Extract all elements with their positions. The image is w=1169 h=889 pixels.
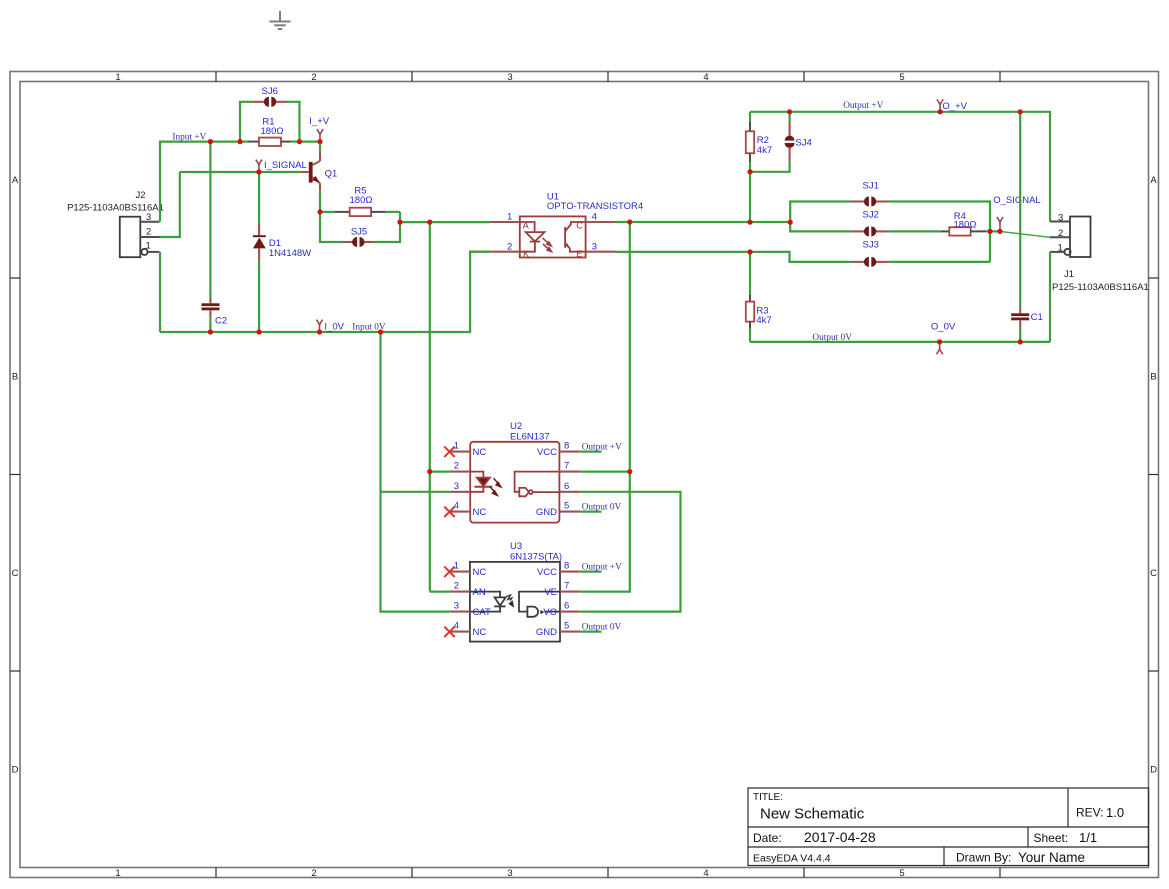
svg-text:I_SIGNAL: I_SIGNAL	[264, 160, 307, 171]
svg-text:2: 2	[1058, 228, 1063, 239]
wire U3 pin5 Output 0V stub	[580, 630, 601, 632]
svg-text:8: 8	[564, 441, 569, 452]
junction R5/SJ5 right node	[397, 220, 402, 225]
svg-text:3: 3	[454, 601, 459, 612]
svg-text:O_+V: O_+V	[942, 101, 967, 112]
svg-text:4: 4	[592, 212, 597, 223]
svg-text:6: 6	[564, 601, 569, 612]
netflag O_+V	[937, 99, 943, 111]
svg-text:SJ2: SJ2	[863, 209, 879, 220]
netflag I_+V	[317, 129, 323, 141]
junction Input+V at I_+V	[317, 139, 322, 144]
wire R2 bottom joint	[750, 162, 790, 172]
connector J2	[120, 217, 160, 258]
netflag I_SIGNAL	[256, 160, 262, 172]
svg-text:NC: NC	[473, 447, 487, 458]
netflag I_0V	[316, 320, 322, 332]
junction I_SIGNAL at D1	[256, 169, 261, 174]
svg-text:4: 4	[454, 501, 459, 512]
capacitor C1	[1011, 112, 1029, 342]
svg-text:5: 5	[564, 501, 569, 512]
svg-text:2: 2	[311, 868, 316, 879]
svg-text:2: 2	[454, 581, 459, 592]
junction top rail C1	[1018, 109, 1023, 114]
svg-text:3: 3	[507, 868, 512, 879]
svg-text:2: 2	[507, 241, 512, 252]
wire J2 pin1 down to 0V rail	[159, 252, 161, 332]
svg-text:Output 0V: Output 0V	[582, 503, 622, 513]
wire U2 pin8 Output +V stub	[580, 451, 601, 453]
junction Input+V at R1 left	[237, 139, 242, 144]
capacitor C2	[202, 142, 220, 332]
U3 internal LED	[470, 592, 506, 612]
svg-text:4: 4	[703, 72, 708, 83]
svg-text:1: 1	[1058, 243, 1063, 254]
wire U2 pin6 to U3 pin6	[580, 492, 680, 612]
wire SJ2 row to R4	[889, 230, 940, 232]
svg-text:2: 2	[146, 227, 151, 238]
svg-text:A: A	[1150, 175, 1157, 186]
resistor R5	[320, 208, 400, 216]
solder jumper SJ2	[851, 226, 890, 236]
svg-text:REV:: REV:	[1076, 806, 1104, 820]
svg-text:Sheet:: Sheet:	[1034, 831, 1069, 845]
frame column numbers top	[115, 72, 904, 83]
wire I_SIGNAL row	[180, 171, 301, 173]
wire vertical x630 to U2 pin7 and U3 pin7	[580, 222, 630, 592]
wire U2 pin2 stub	[430, 471, 450, 473]
svg-text:J2: J2	[135, 190, 145, 201]
svg-text:1.0: 1.0	[1106, 805, 1124, 820]
frame column ticks bottom	[216, 868, 1000, 878]
svg-text:A: A	[12, 175, 19, 186]
U3 internal output gate	[519, 592, 560, 617]
junction U1 pin4 row at R2	[747, 220, 752, 225]
U2 no-connect X pin1	[444, 447, 454, 457]
junction 0V rail at C1	[1018, 339, 1023, 344]
svg-text:5: 5	[564, 621, 569, 632]
wire J2 pin3 to Input +V rail	[160, 142, 240, 222]
frame row letters left	[12, 175, 19, 776]
svg-text:O_0V: O_0V	[931, 321, 956, 332]
svg-text:C: C	[12, 568, 19, 579]
wire 0V branch down to U3 pin3	[381, 332, 451, 612]
svg-text:B: B	[1150, 372, 1156, 383]
junction U2 pin7	[627, 469, 632, 474]
svg-text:8: 8	[564, 561, 569, 572]
svg-text:TITLE:: TITLE:	[753, 792, 783, 803]
svg-text:B: B	[12, 372, 18, 383]
resistor R1	[240, 138, 300, 146]
frame row ticks left	[10, 278, 20, 671]
junction Input+V at R1 right	[297, 139, 302, 144]
svg-text:OPTO-TRANSISTOR4: OPTO-TRANSISTOR4	[547, 201, 643, 212]
resistor R2	[746, 112, 754, 172]
svg-text:1: 1	[507, 212, 512, 223]
svg-text:3: 3	[454, 481, 459, 492]
svg-text:SJ6: SJ6	[262, 86, 278, 97]
connector J1	[1050, 217, 1091, 258]
U2 internal LED	[470, 472, 492, 492]
svg-text:VO: VO	[543, 607, 557, 618]
svg-text:4k7: 4k7	[757, 145, 772, 156]
wire SJ6 loop left	[240, 102, 253, 142]
wire SJ6 loop right	[287, 102, 300, 142]
svg-text:I_0V: I_0V	[324, 321, 344, 332]
svg-text:C2: C2	[215, 316, 227, 327]
svg-text:Date:: Date:	[753, 831, 782, 845]
wire to U3 pin2	[430, 590, 450, 592]
svg-text:4: 4	[454, 621, 459, 632]
U3 no-connect X pin4	[444, 627, 454, 637]
svg-text:1N4148W: 1N4148W	[269, 248, 311, 259]
svg-text:AN: AN	[473, 587, 486, 598]
svg-text:NC: NC	[473, 627, 487, 638]
svg-text:SJ5: SJ5	[351, 226, 367, 237]
svg-text:7: 7	[564, 581, 569, 592]
wire U2 pin7 to vertical	[580, 471, 630, 473]
junction 0V at U3 branch	[378, 329, 383, 334]
svg-text:Output +V: Output +V	[582, 562, 622, 572]
svg-text:A: A	[523, 220, 529, 230]
wire J2 pin2 to I_SIGNAL	[160, 172, 180, 237]
svg-text:7: 7	[564, 461, 569, 472]
svg-text:Output 0V: Output 0V	[582, 623, 622, 633]
svg-text:New Schematic: New Schematic	[760, 806, 865, 823]
wire vertical to U2 pin2	[429, 222, 431, 591]
svg-text:VE: VE	[544, 587, 557, 598]
solder jumper SJ5	[343, 237, 374, 247]
svg-text:GND: GND	[536, 507, 557, 518]
wire U2 pin3 branch	[381, 491, 451, 493]
junction top rail SJ4	[787, 109, 792, 114]
svg-text:C: C	[576, 220, 583, 230]
wire input 0V rail	[160, 252, 490, 332]
netflag O_SIGNAL	[997, 217, 1003, 231]
wire SJ3 row right	[889, 261, 990, 263]
svg-text:180Ω: 180Ω	[954, 219, 977, 230]
svg-text:VCC: VCC	[537, 447, 557, 458]
junction top rail O_+V	[938, 109, 943, 114]
junction R4 right	[987, 229, 992, 234]
wire U2 pin5 Output 0V stub	[580, 511, 601, 513]
junction 0V rail at O_0V	[937, 339, 942, 344]
svg-text:Your Name: Your Name	[1018, 850, 1085, 865]
svg-text:P125-1103A0BS116A1: P125-1103A0BS116A1	[67, 203, 164, 214]
ground	[270, 11, 291, 29]
title block text	[753, 792, 1124, 865]
svg-text:P125-1103A0BS116A1: P125-1103A0BS116A1	[1052, 282, 1149, 293]
svg-text:Drawn By:: Drawn By:	[956, 851, 1011, 865]
svg-text:SJ4: SJ4	[795, 137, 811, 148]
U1 internal phototransistor	[565, 222, 586, 252]
solder jumper SJ1	[851, 197, 890, 207]
svg-text:O_SIGNAL: O_SIGNAL	[993, 195, 1041, 206]
svg-text:GND: GND	[536, 627, 557, 638]
transistor Q1	[301, 142, 320, 212]
frame column ticks top	[216, 72, 1000, 82]
junction U2 pin2	[427, 469, 432, 474]
wire Output +V rail	[750, 112, 1050, 222]
svg-text:SJ1: SJ1	[863, 180, 879, 191]
wire diagonal to J1 pin2	[1000, 231, 1050, 237]
junction U1 pin4 row at x630	[627, 219, 632, 224]
svg-text:CAT: CAT	[473, 607, 491, 618]
frame row letters right	[1150, 175, 1157, 776]
wire U1 pin4 row to right	[616, 221, 791, 223]
wire U3 pin8 Output +V stub	[580, 570, 601, 572]
resistor R3	[746, 252, 754, 342]
IC U2 EL6N137 box	[450, 442, 580, 523]
svg-text:3: 3	[592, 241, 597, 252]
svg-text:NC: NC	[473, 567, 487, 578]
svg-text:Output 0V: Output 0V	[812, 333, 852, 343]
svg-text:SJ3: SJ3	[863, 240, 879, 251]
wire I_SIGNAL down to D1	[258, 172, 260, 224]
svg-text:1: 1	[146, 241, 151, 252]
svg-text:K: K	[523, 249, 529, 259]
svg-text:I_+V: I_+V	[309, 116, 329, 127]
wire SJ1 row right	[889, 202, 990, 262]
svg-text:2: 2	[311, 72, 316, 83]
svg-text:180Ω: 180Ω	[350, 195, 373, 206]
frame column numbers bottom	[115, 868, 904, 879]
title block	[748, 788, 1149, 866]
diode D1	[253, 224, 266, 332]
svg-text:4k7: 4k7	[756, 315, 771, 326]
svg-text:4: 4	[703, 868, 708, 879]
svg-text:2017-04-28: 2017-04-28	[804, 829, 876, 845]
svg-text:1: 1	[454, 441, 459, 452]
junction emitter node	[317, 209, 322, 214]
wire Output 0V rail	[750, 341, 1050, 343]
svg-text:Output +V: Output +V	[582, 442, 622, 452]
svg-text:NC: NC	[473, 507, 487, 518]
svg-text:1/1: 1/1	[1079, 830, 1097, 845]
wire opto input row	[400, 221, 490, 223]
U2 internal output gate	[515, 472, 560, 497]
wire U1 pin3 row to right	[616, 252, 851, 262]
netflag O_0V pointing down	[936, 342, 942, 354]
svg-text:D: D	[1150, 765, 1157, 776]
svg-text:1: 1	[115, 868, 120, 879]
frame row ticks right	[1149, 278, 1159, 671]
svg-text:6: 6	[564, 481, 569, 492]
U1 internal light arrows	[543, 238, 552, 252]
solder jumper SJ6	[253, 97, 287, 107]
svg-text:EasyEDA V4.4.4: EasyEDA V4.4.4	[753, 853, 831, 865]
svg-text:C: C	[1150, 568, 1157, 579]
wire SJ2 row left	[790, 222, 851, 231]
junction R2 bottom	[747, 169, 752, 174]
resistor R4	[941, 227, 1000, 235]
junction 0V at C2	[208, 329, 213, 334]
wire J1 pin1 down to Output 0V rail	[1049, 252, 1051, 342]
svg-text:E: E	[576, 249, 582, 259]
svg-text:180Ω: 180Ω	[261, 126, 284, 137]
svg-text:3: 3	[507, 72, 512, 83]
junction U1 pin3 row at R3	[747, 249, 752, 254]
wire SJ5 loop right	[374, 212, 401, 242]
svg-text:VCC: VCC	[537, 567, 557, 578]
svg-text:C1: C1	[1031, 312, 1043, 323]
solder jumper SJ4	[785, 112, 795, 162]
svg-text:3: 3	[1058, 213, 1063, 224]
wire SJ5 loop left	[320, 212, 343, 242]
op-amp U1 opto box	[490, 216, 615, 257]
svg-text:Input +V: Input +V	[172, 132, 206, 142]
wire U1 pin2 down to 0V rail	[470, 251, 490, 253]
svg-text:1: 1	[454, 561, 459, 572]
junction U1 pin4 row at SJ box	[788, 220, 793, 225]
svg-text:Output +V: Output +V	[843, 101, 883, 111]
U3 internal light zigzag arrow	[506, 595, 513, 606]
svg-text:1: 1	[115, 72, 120, 83]
svg-text:EL6N137: EL6N137	[510, 431, 550, 442]
svg-text:5: 5	[899, 868, 904, 879]
IC U3 6N137S box	[450, 562, 580, 642]
junction 0V at D1	[257, 329, 262, 334]
junction 0V at I_0V	[317, 329, 322, 334]
svg-text:5: 5	[899, 72, 904, 83]
svg-text:D: D	[12, 765, 19, 776]
svg-text:2: 2	[454, 461, 459, 472]
junction O_SIGNAL	[997, 229, 1002, 234]
svg-text:6N137S(TA): 6N137S(TA)	[510, 551, 562, 562]
svg-text:Q1: Q1	[325, 169, 338, 180]
svg-text:J1: J1	[1064, 269, 1074, 280]
wire SJ box left vertical	[790, 202, 851, 223]
U1 internal LED	[520, 222, 545, 252]
wire R2 bottom down to pin4 row	[749, 172, 751, 222]
junction Input+V at C2	[208, 139, 213, 144]
wire Input +V rail right of R1	[300, 141, 321, 143]
U3 no-connect X pin1	[444, 567, 454, 577]
U2 internal light arrows	[490, 478, 501, 495]
junction opto input node	[427, 220, 432, 225]
solder jumper SJ3	[851, 257, 890, 267]
U2 no-connect X pin4	[444, 507, 454, 517]
